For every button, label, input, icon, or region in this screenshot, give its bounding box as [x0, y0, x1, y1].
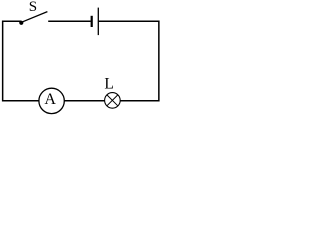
switch S: pivot dot	[19, 21, 23, 25]
wire: top-right horizontal, right vertical, bottom-right segment	[99, 21, 159, 101]
lamp L: cross diagonal 1	[107, 95, 118, 106]
wire: bottom segment between ammeter and lamp	[64, 100, 106, 102]
ammeter A: circle	[39, 88, 64, 113]
svg-text:S: S	[29, 0, 37, 15]
lamp L: cross diagonal 2	[107, 95, 118, 106]
lamp L: circle	[105, 93, 121, 109]
wire: top middle segment (switch to battery)	[48, 20, 90, 22]
wire: top-left horizontal, left vertical, bottom-left segment	[3, 21, 40, 101]
svg-text:L: L	[104, 75, 113, 92]
svg-text:A: A	[44, 91, 56, 108]
battery: short thick negative plate	[91, 16, 93, 27]
battery: long thin positive plate	[97, 8, 99, 35]
switch S: blade (open)	[22, 12, 48, 23]
